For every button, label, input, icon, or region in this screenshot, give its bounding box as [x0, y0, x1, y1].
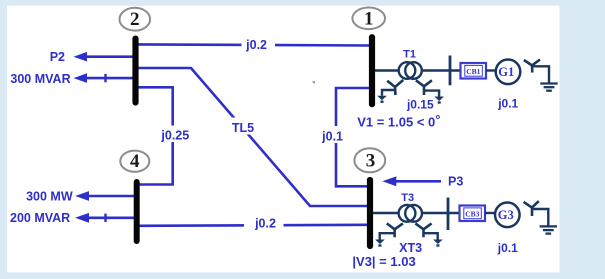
wire j0.2 bus2-bus1 [138, 44, 370, 45]
svg-text:4: 4 [130, 151, 140, 172]
svg-text:300 MW: 300 MW [26, 189, 73, 203]
load arrow P3 [382, 176, 441, 186]
transformer T3 [399, 205, 422, 222]
label V3 = 1.03 [352, 254, 415, 269]
node 4 circle [120, 151, 149, 172]
label T3 [401, 192, 414, 204]
svg-text:200 MVAR: 200 MVAR [10, 211, 70, 225]
load arrow P2 [74, 52, 134, 62]
grounded wye left of T3 [375, 223, 403, 246]
bus 4 bar [134, 182, 140, 241]
label j0.1 G3 [497, 241, 518, 255]
svg-text:T3: T3 [401, 192, 414, 204]
wye symbol G1 [524, 60, 540, 73]
label j0.2 line 3-4 [244, 215, 284, 230]
svg-text:CB3: CB3 [465, 210, 479, 219]
wire G3 wye to ground [533, 209, 548, 226]
label P2 [50, 50, 65, 64]
label P3 [448, 175, 463, 189]
label TL5 [230, 118, 258, 135]
node tick generator bus 3 [447, 198, 450, 231]
svg-text:300 MVAR: 300 MVAR [10, 72, 70, 86]
wire j0.1 bus1-bus3 [336, 88, 370, 186]
breaker CB1 [461, 63, 487, 79]
generator G1 [496, 60, 521, 85]
ground G1 [540, 84, 557, 91]
load arrow 300 MVAR [74, 73, 134, 83]
svg-text:j0.2: j0.2 [245, 38, 267, 52]
wye symbol G3 [524, 201, 539, 216]
svg-text:P3: P3 [448, 175, 463, 189]
label j0.15 [406, 98, 434, 112]
svg-text:T1: T1 [403, 48, 416, 60]
svg-text:XT3: XT3 [399, 241, 422, 255]
label 300 MW [26, 189, 73, 203]
node 2 circle [120, 8, 151, 31]
svg-text:j0.2: j0.2 [254, 216, 276, 230]
svg-text:1: 1 [364, 8, 374, 29]
svg-text:j0.1: j0.1 [497, 97, 518, 111]
wire TL5 bus2-bus3 [138, 68, 368, 206]
label 300 MVAR [10, 72, 70, 86]
node tick generator bus 1 [449, 56, 452, 86]
svg-text:TL5: TL5 [232, 121, 254, 135]
label T1 [403, 48, 416, 60]
label 200 MVAR [10, 211, 70, 225]
svg-text:P2: P2 [50, 50, 65, 64]
bus 1 bar [369, 37, 375, 104]
svg-text:2: 2 [130, 9, 140, 30]
grounded wye right of T3 [415, 223, 442, 246]
stray mark speck [313, 81, 315, 83]
svg-text:j0.1: j0.1 [497, 241, 518, 255]
svg-text:3: 3 [366, 150, 376, 171]
grounded wye left of T1 [377, 80, 403, 103]
svg-text:V1 = 1.05 < 0°: V1 = 1.05 < 0° [357, 112, 440, 130]
svg-text:j0.15: j0.15 [406, 98, 434, 112]
svg-text:G1: G1 [498, 65, 514, 79]
label j0.25 [158, 126, 192, 143]
svg-text:|V3| = 1.03: |V3| = 1.03 [352, 254, 415, 269]
bus 3 bar [367, 180, 373, 246]
load arrow 200 MVAR [75, 213, 134, 223]
label j0.1 G1 [497, 97, 518, 111]
svg-text:CB1: CB1 [466, 67, 480, 76]
ground G3 [540, 226, 557, 233]
wire CB1 to G1 [486, 69, 497, 71]
wire T3 to CB3 [422, 212, 460, 214]
transformer T1 [399, 62, 422, 79]
grounded wye right of T1 [416, 80, 444, 103]
wire j0.2 bus4-bus3 [137, 225, 368, 226]
label V1 = 1.05 &lt; 0deg [357, 112, 440, 130]
node 3 circle [354, 148, 385, 172]
wire T1 to CB1 [422, 69, 461, 71]
svg-text:j0.1: j0.1 [321, 129, 343, 143]
svg-text:j0.25: j0.25 [160, 129, 189, 143]
generator G3 [495, 203, 520, 228]
wire bus3 to T3 [373, 212, 399, 214]
wire CB3 to G3 [485, 212, 496, 214]
wire j0.25 bus2-bus4 [137, 87, 173, 184]
breaker CB3 [460, 206, 486, 222]
label j0.2 line 1-2 [242, 38, 276, 52]
load arrow 300 MW [75, 191, 134, 201]
node 1 circle [352, 7, 385, 29]
label XT3 [399, 241, 422, 255]
wire G1 wye to ground [533, 66, 549, 83]
wire bus1 to T1 [375, 69, 399, 71]
svg-text:G3: G3 [498, 208, 514, 222]
bus 2 bar [132, 39, 138, 103]
label j0.1 line 1-3 [321, 126, 344, 143]
